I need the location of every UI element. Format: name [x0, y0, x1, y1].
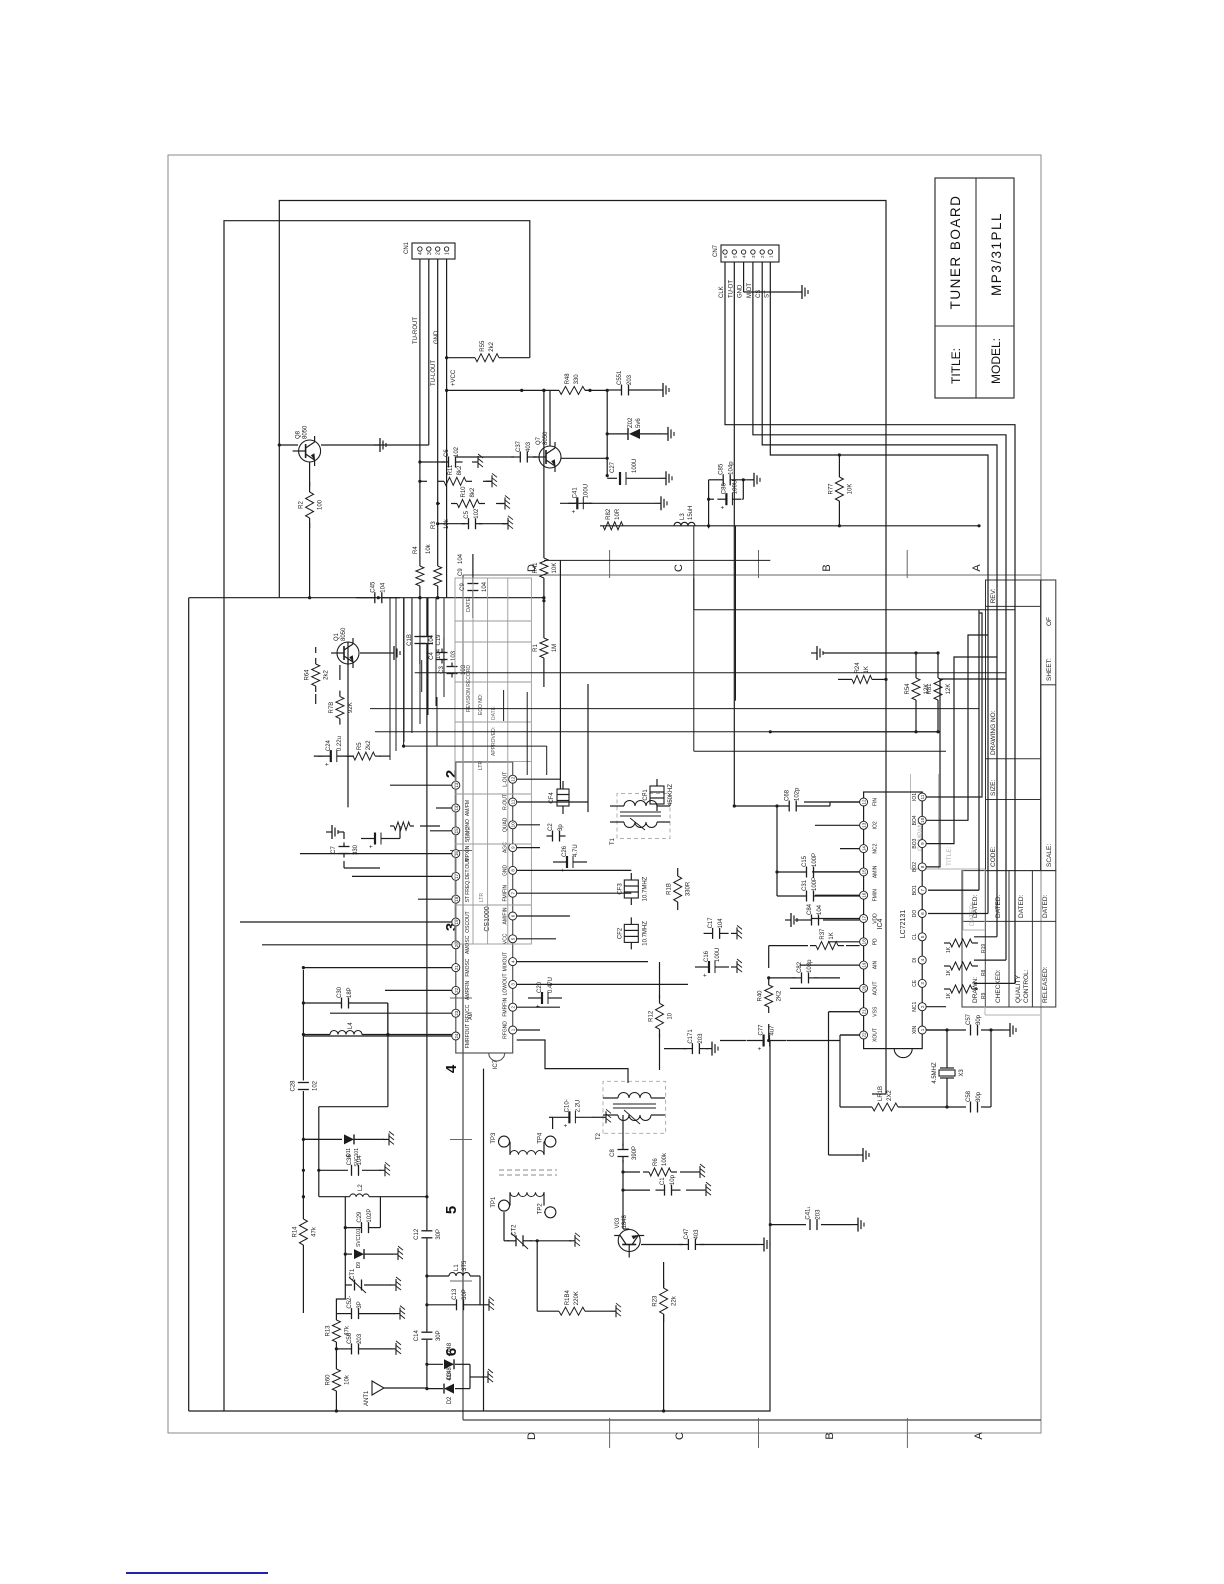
ground c17	[731, 925, 742, 939]
ground C551g	[657, 383, 669, 397]
svg-text:DI: DI	[912, 958, 918, 963]
svg-text:1K: 1K	[829, 932, 835, 939]
capacitor C56	[347, 1332, 363, 1354]
svg-text:14: 14	[862, 846, 867, 852]
inductor L4 coil	[302, 1022, 452, 1036]
svg-text:AOUT: AOUT	[873, 981, 879, 995]
wires ladder	[418, 460, 508, 525]
svg-text:100k: 100k	[662, 1152, 668, 1166]
svg-text:C47: C47	[684, 1228, 690, 1240]
wire R41 rails	[542, 389, 545, 687]
svg-text:2k2: 2k2	[489, 341, 495, 351]
svg-text:7: 7	[920, 888, 925, 891]
trimmer CT1 cap	[350, 1268, 362, 1290]
svg-text:MPXIN: MPXIN	[465, 845, 471, 861]
svg-text:6: 6	[511, 914, 516, 917]
capacitor C14	[414, 1330, 442, 1342]
svg-text:10: 10	[668, 1012, 674, 1019]
svg-text:30p: 30p	[976, 1091, 982, 1102]
svg-text:1K: 1K	[864, 666, 870, 673]
capacitor C28	[290, 1080, 318, 1092]
svg-text:203: 203	[357, 1333, 363, 1344]
svg-text:19: 19	[862, 962, 867, 968]
coil TP12	[510, 1192, 546, 1212]
wire C9	[472, 554, 474, 618]
svg-text:100P: 100P	[812, 877, 818, 891]
capacitor C16	[695, 948, 729, 977]
ground c56	[390, 1341, 401, 1355]
svg-text:C5: C5	[464, 510, 470, 518]
svg-text:NC2: NC2	[873, 843, 879, 853]
svg-text:CLK: CLK	[719, 286, 725, 298]
ground CN7	[796, 285, 808, 299]
svg-text:2k2: 2k2	[324, 670, 330, 680]
ground ct1	[390, 1277, 401, 1291]
svg-text:47k: 47k	[311, 1226, 317, 1237]
svg-text:CN7: CN7	[713, 244, 719, 257]
bus CN7 wires to PLL	[725, 262, 1015, 983]
capacitor C47	[679, 1228, 704, 1250]
svg-text:DATE:: DATE:	[491, 706, 497, 720]
wires pll rc	[720, 946, 860, 1043]
wire rail R13 R60	[335, 1314, 338, 1413]
svg-text:C52-: C52-	[347, 1296, 353, 1309]
svg-text:D2: D2	[447, 1396, 453, 1404]
svg-text:TUNER BOARD: TUNER BOARD	[948, 195, 963, 310]
svg-text:CF4: CF4	[549, 792, 555, 804]
svg-text:3T5: 3T5	[462, 1260, 468, 1271]
test point TP1	[491, 1196, 510, 1211]
svg-text:C41₁: C41₁	[806, 1207, 812, 1220]
capacitor C2	[547, 823, 566, 842]
svg-text:0.47U: 0.47U	[548, 977, 554, 993]
svg-text:4: 4	[443, 1064, 460, 1073]
transistor V03	[614, 1214, 644, 1257]
svg-text:CF2: CF2	[617, 927, 623, 939]
svg-text:R10: R10	[461, 486, 467, 498]
svg-text:15uH: 15uH	[688, 506, 694, 520]
wire Q8 base left	[278, 443, 298, 446]
svg-text:22: 22	[862, 1032, 867, 1038]
svg-text:ST: ST	[764, 290, 770, 298]
ground diodes	[455, 1364, 484, 1388]
svg-text:18: 18	[454, 896, 459, 902]
capacitor C24	[314, 736, 354, 766]
svg-text:R11: R11	[448, 464, 454, 475]
svg-text:BO1: BO1	[912, 885, 918, 895]
border frame	[168, 155, 1041, 1433]
svg-text:C36: C36	[347, 1154, 353, 1166]
svg-text:LTR: LTR	[479, 893, 485, 902]
svg-text:11: 11	[511, 799, 516, 804]
svg-text:R64: R64	[305, 669, 311, 681]
svg-text:3: 3	[427, 252, 433, 255]
svg-text:C6: C6	[444, 449, 450, 457]
svg-text:103: 103	[451, 650, 457, 661]
svg-text:12: 12	[511, 776, 516, 782]
wire R48	[585, 389, 592, 392]
svg-text:21: 21	[454, 965, 459, 971]
svg-text:4: 4	[742, 255, 747, 258]
resistor R10	[451, 486, 485, 508]
svg-text:CL: CL	[912, 933, 918, 940]
title info table	[986, 580, 1056, 871]
svg-text:20: 20	[454, 942, 459, 948]
test point TP4	[537, 1132, 556, 1147]
svg-text:104: 104	[380, 582, 386, 593]
resistor R6	[643, 1152, 677, 1176]
capacitor C15	[802, 853, 818, 878]
resistor R19	[944, 939, 978, 947]
svg-text:10k: 10k	[344, 1374, 350, 1385]
capacitor C58	[966, 1090, 982, 1112]
capacitor C82	[793, 959, 818, 984]
svg-text:C8: C8	[610, 1149, 616, 1157]
wire loop left second	[189, 598, 280, 1411]
wire c3a r22	[395, 826, 440, 839]
svg-text:SCALE:: SCALE:	[1046, 844, 1053, 867]
crystal X3	[932, 1059, 965, 1087]
svg-text:TU-DT: TU-DT	[728, 280, 734, 298]
inner frame top edge	[462, 575, 464, 1420]
svg-text:TU-ROUT: TU-ROUT	[413, 317, 419, 344]
svg-text:AIN: AIN	[873, 961, 879, 970]
bus IC4 BO staircase	[926, 613, 1006, 867]
capacitor C52	[347, 1296, 363, 1320]
antenna ANT1	[364, 1381, 427, 1406]
svg-text:14: 14	[454, 805, 459, 811]
ground ct2	[569, 1233, 580, 1247]
svg-text:3p: 3p	[558, 824, 564, 831]
svg-text:15: 15	[862, 869, 867, 875]
svg-text:6: 6	[723, 255, 728, 258]
ground h4	[502, 516, 513, 530]
trimmer CT1	[345, 1268, 391, 1293]
svg-text:102P: 102P	[367, 1209, 373, 1223]
svg-text:8050: 8050	[341, 627, 347, 641]
svg-text:CN1: CN1	[404, 241, 410, 254]
capacitor C551	[617, 370, 633, 396]
svg-text:24: 24	[454, 1033, 459, 1039]
svg-text:CF3: CF3	[617, 883, 623, 895]
svg-text:13: 13	[454, 782, 459, 788]
ground c411	[852, 1218, 864, 1232]
svg-text:92K: 92K	[348, 702, 354, 713]
zone ticks right	[610, 550, 908, 578]
svg-text:2X2: 2X2	[887, 1090, 893, 1101]
svg-text:Q7: Q7	[536, 436, 542, 445]
svg-text:C10-: C10-	[564, 1099, 570, 1112]
svg-text:DATE:: DATE:	[466, 596, 472, 612]
svg-text:21: 21	[862, 1009, 867, 1015]
svg-text:R41: R41	[533, 562, 539, 574]
svg-text:C13: C13	[452, 1288, 458, 1300]
connector CN7	[713, 244, 779, 298]
svg-text:30P: 30P	[436, 1229, 442, 1240]
capacitor C6	[442, 446, 463, 467]
svg-text:C1: C1	[660, 1177, 666, 1185]
svg-text:R55: R55	[480, 340, 486, 352]
zener Z02 5v6	[607, 417, 662, 440]
svg-text:8: 8	[511, 869, 516, 872]
ground C57	[1004, 1023, 1016, 1037]
svg-text:5: 5	[443, 1206, 460, 1214]
svg-text:2: 2	[920, 1005, 925, 1008]
svg-text:100U: 100U	[715, 948, 721, 962]
svg-text:R8: R8	[981, 969, 987, 976]
svg-text:10k: 10k	[426, 543, 432, 554]
svg-text:C551: C551	[617, 370, 623, 385]
svg-text:APPROVED:: APPROVED:	[491, 727, 497, 756]
wire C10	[549, 1117, 600, 1129]
svg-text:5: 5	[511, 937, 516, 940]
svg-text:1K: 1K	[946, 946, 952, 953]
svg-text:1: 1	[920, 1028, 925, 1031]
svg-text:10R: 10R	[615, 508, 621, 520]
svg-text:FIN: FIN	[873, 798, 879, 806]
wire R2	[308, 462, 311, 599]
wire loop rect1 top	[279, 201, 886, 1095]
svg-text:TP4: TP4	[537, 1132, 543, 1144]
svg-text:C30: C30	[337, 986, 343, 998]
svg-text:11: 11	[920, 794, 925, 799]
wire tank right rail	[319, 1003, 390, 1107]
svg-text:104p: 104p	[729, 461, 735, 475]
svg-text:C77: C77	[759, 1024, 765, 1036]
ground Q1	[388, 646, 400, 660]
transformer T1	[610, 794, 670, 846]
wires pull-up block	[769, 651, 940, 733]
svg-text:Q8: Q8	[296, 430, 302, 439]
zone digits top 6 5 4 3 2	[443, 770, 460, 1356]
ground d9	[392, 1246, 403, 1260]
svg-text:Q1: Q1	[334, 632, 340, 641]
svg-text:C58: C58	[966, 1090, 972, 1102]
IC IC7 CS1000 tuner chip	[452, 762, 517, 1069]
svg-text:403: 403	[694, 1229, 700, 1240]
ground h1	[472, 454, 483, 468]
svg-text:2.2U: 2.2U	[575, 1100, 581, 1113]
label date dark	[466, 596, 472, 612]
svg-text:0.22u: 0.22u	[337, 736, 343, 751]
svg-text:R13: R13	[325, 1325, 331, 1337]
svg-text:23: 23	[454, 1010, 459, 1016]
blue underline mark bottom left	[126, 1572, 268, 1574]
svg-text:C24: C24	[326, 739, 332, 751]
svg-text:7: 7	[511, 891, 516, 894]
resistor R11	[438, 464, 472, 485]
capacitor C13	[452, 1288, 468, 1310]
svg-text:R7B: R7B	[329, 702, 335, 714]
svg-text:AMIN: AMIN	[873, 865, 879, 878]
label C9 104 text	[458, 553, 464, 576]
resistor R4	[416, 566, 424, 586]
svg-text:SVC101: SVC101	[356, 1228, 362, 1247]
capacitor C3	[439, 663, 467, 678]
svg-text:10p: 10p	[670, 1174, 676, 1185]
svg-text:220K: 220K	[574, 1291, 580, 1305]
svg-text:17: 17	[862, 916, 867, 922]
ground q7e	[655, 496, 667, 510]
svg-text:+: +	[563, 1123, 569, 1127]
svg-text:2K2: 2K2	[777, 990, 783, 1001]
svg-text:L3: L3	[680, 513, 686, 520]
svg-text:10.7MHZ: 10.7MHZ	[642, 921, 648, 946]
transistor Q7 8050	[533, 431, 561, 472]
capacitor C19	[421, 637, 432, 644]
ground VSS	[857, 1148, 869, 1162]
svg-text:22: 22	[454, 987, 459, 993]
wire CN1 TU-ROUT	[413, 259, 420, 566]
svg-text:FREQ.DET.OUT: FREQ.DET.OUT	[465, 858, 471, 895]
filter CF1	[643, 779, 674, 811]
resistor R8	[944, 962, 978, 970]
transformer core dashes	[499, 1170, 557, 1175]
ground C84	[785, 913, 797, 927]
IC IC4 LC72131 PLL chip	[860, 792, 927, 1058]
svg-text:C41: C41	[572, 487, 578, 499]
svg-text:REVISION RECORD: REVISION RECORD	[466, 665, 472, 712]
wire c45	[356, 597, 400, 599]
wires if section	[484, 962, 865, 1413]
resistor R1	[533, 638, 558, 658]
svg-text:390P: 390P	[632, 1146, 638, 1160]
svg-text:C19: C19	[436, 634, 442, 646]
coil TP34	[510, 1142, 546, 1155]
svg-text:REV:: REV:	[990, 588, 997, 603]
resistor R7B	[329, 691, 354, 725]
wire CN1 +VCC	[445, 259, 457, 598]
svg-text:10K: 10K	[552, 563, 558, 574]
svg-text:T2: T2	[596, 1132, 602, 1140]
svg-text:330: 330	[574, 374, 580, 385]
ground r1b4	[610, 1303, 621, 1317]
svg-text:RELEASED:: RELEASED:	[1042, 966, 1049, 1003]
capacitor C86	[717, 480, 741, 509]
wires top of CS1000	[338, 832, 380, 868]
svg-text:C: C	[674, 1432, 686, 1440]
svg-text:C57: C57	[966, 1013, 972, 1025]
svg-text:C171: C171	[688, 1029, 694, 1044]
ground r6	[694, 1164, 705, 1178]
ground c47	[758, 1238, 770, 1252]
capacitor C5	[462, 508, 483, 529]
svg-text:R1: R1	[533, 644, 539, 652]
ground c10	[600, 1109, 611, 1123]
capacitor C84	[807, 903, 823, 925]
svg-text:10: 10	[920, 817, 925, 823]
svg-text:LTR: LTR	[478, 761, 484, 770]
svg-text:C7: C7	[331, 846, 337, 854]
svg-text:100P: 100P	[812, 853, 818, 867]
svg-text:19: 19	[454, 919, 459, 925]
svg-text:MIXOUT: MIXOUT	[503, 952, 509, 971]
capacitor C30	[337, 986, 353, 1008]
connector CN1	[404, 241, 455, 259]
capacitor C1	[656, 1174, 681, 1195]
resistor R13	[325, 1320, 350, 1342]
svg-text:203: 203	[627, 374, 633, 385]
svg-text:C9: C9	[458, 568, 464, 576]
resistor R24	[852, 662, 872, 684]
wire loop rect2	[224, 221, 770, 1411]
transistor Q1 8050	[331, 627, 359, 668]
svg-text:8k2: 8k2	[470, 487, 476, 497]
svg-text:20: 20	[862, 985, 867, 991]
svg-text:LR1B: LR1B	[878, 1086, 884, 1101]
svg-text:102p: 102p	[795, 787, 801, 801]
svg-text:C12: C12	[414, 1228, 420, 1240]
svg-text:AMOSC: AMOSC	[465, 935, 471, 954]
svg-text:L4: L4	[348, 1022, 354, 1029]
capacitor C29	[357, 1209, 373, 1234]
svg-text:+: +	[536, 1004, 542, 1008]
capacitor C7	[331, 843, 359, 858]
svg-text:102: 102	[312, 1080, 318, 1091]
svg-text:OF: OF	[1046, 617, 1053, 626]
svg-text:4: 4	[511, 960, 516, 963]
capacitor C9	[460, 581, 488, 592]
svg-text:+: +	[369, 845, 375, 849]
table revision record	[455, 578, 531, 944]
svg-text:203: 203	[698, 1033, 704, 1044]
filter CF4	[549, 781, 569, 814]
svg-text:9: 9	[920, 842, 925, 845]
capacitor C45	[368, 581, 389, 603]
svg-text:CF1: CF1	[643, 789, 649, 801]
svg-text:TITLE:: TITLE:	[949, 348, 963, 384]
resistor R64	[305, 658, 330, 692]
trimmer CT2 cap	[507, 1224, 532, 1246]
capacitor C10	[552, 1099, 592, 1127]
svg-text:+: +	[720, 505, 726, 509]
wires IC4 top pins	[790, 802, 860, 1035]
resistor R14	[292, 1219, 317, 1245]
inductor L3 15uH	[674, 506, 695, 526]
svg-text:100U: 100U	[732, 480, 738, 494]
svg-text:104: 104	[436, 648, 442, 659]
svg-text:AM/FM: AM/FM	[465, 800, 471, 816]
zone letters right D C B A	[526, 564, 983, 572]
wire main RF line	[425, 598, 428, 1391]
svg-text:C45: C45	[370, 581, 376, 593]
zone letters left D C B A	[526, 1432, 985, 1440]
svg-text:8050: 8050	[543, 431, 549, 445]
svg-text:R1B: R1B	[667, 883, 673, 895]
svg-text:203: 203	[816, 1209, 822, 1220]
ground c1	[700, 1182, 711, 1196]
ground c13	[483, 1297, 494, 1311]
ground Z02	[662, 427, 674, 441]
svg-text:18P: 18P	[347, 987, 353, 998]
svg-text:C17: C17	[708, 917, 714, 929]
svg-text:C31: C31	[802, 879, 808, 891]
wires CS1000 top pins	[240, 642, 452, 1036]
svg-text:XIN: XIN	[912, 1025, 918, 1034]
zone ticks top	[450, 851, 472, 1282]
ground d23	[482, 1369, 493, 1383]
resistor R3	[434, 566, 442, 586]
title block	[935, 178, 1014, 398]
svg-text:2k2: 2k2	[366, 740, 372, 750]
svg-text:10.7MHZ: 10.7MHZ	[642, 876, 648, 901]
svg-text:15: 15	[454, 828, 459, 834]
svg-text:CONTROL:: CONTROL:	[1023, 969, 1030, 1003]
svg-text:30p: 30p	[976, 1014, 982, 1025]
svg-text:X3: X3	[959, 1069, 965, 1077]
svg-text:DATED:: DATED:	[1018, 894, 1025, 918]
transformer T2	[596, 1081, 666, 1140]
